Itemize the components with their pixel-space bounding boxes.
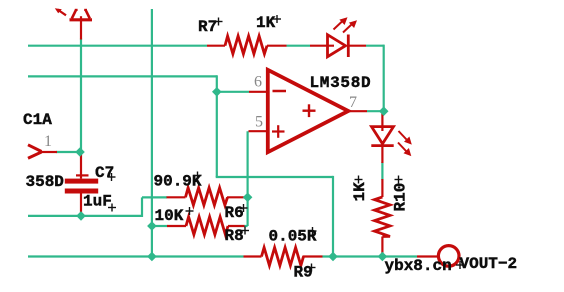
svg-text:1K: 1K — [351, 182, 369, 202]
svg-text:R8: R8 — [225, 227, 244, 245]
pin stub opamp pin7 — [349, 110, 368, 112]
wire pin5 down to R6 node — [244, 131, 248, 226]
svg-text:358D: 358D — [26, 173, 64, 191]
wire H3 cap bottom — [28, 197, 167, 217]
resistor R8 10K — [186, 217, 228, 235]
pin stub opamp pin6 — [249, 91, 267, 93]
pin stub R10 top — [381, 179, 383, 197]
resistor R7 — [225, 36, 267, 54]
cross 1K rot — [355, 179, 363, 181]
power symbol arrow — [70, 10, 93, 21]
svg-text:VOUT−2: VOUT−2 — [460, 255, 518, 273]
op-amp minus sign — [273, 90, 287, 93]
junction node (247.6,197) — [243, 192, 253, 202]
svg-text:R6: R6 — [225, 204, 244, 222]
pin stub R10 bottom — [381, 237, 383, 257]
cross 1uF — [108, 207, 116, 209]
cross R7 — [215, 21, 223, 23]
pin stub R8 left — [167, 225, 186, 227]
wire H2 to pin6 — [28, 75, 249, 92]
cross C7 — [108, 176, 116, 178]
pin stub R6 left — [167, 196, 186, 198]
wire LED2 to R10 — [381, 162, 383, 180]
pin stub LED2 top — [381, 111, 383, 131]
cross 90.9K — [194, 175, 202, 177]
wire H1 segments right of R7 — [287, 45, 385, 47]
LED D2 arrows — [398, 131, 407, 151]
wire H1 top — [28, 45, 207, 47]
pin stub LED1 cathode — [349, 45, 367, 47]
op-amp plus sign pin5 — [272, 125, 285, 138]
svg-text:ybx8.cn: ybx8.cn — [385, 257, 452, 275]
svg-text:R10: R10 — [392, 183, 410, 212]
wire pin1 opamp A to node — [56, 151, 80, 153]
pin stub opamp A pin1 — [41, 151, 57, 153]
cross R8 — [241, 230, 249, 232]
LED D1 arrows — [334, 22, 352, 33]
cross R10 rot — [395, 179, 403, 181]
svg-text:10K: 10K — [155, 207, 184, 225]
pin stub R7 left — [207, 45, 225, 47]
svg-text:1uF: 1uF — [83, 193, 112, 211]
svg-text:7: 7 — [349, 94, 357, 111]
pin stub R9 left — [244, 255, 262, 257]
wire from node down and right to x333 — [216, 92, 333, 257]
red pin stubs — [41, 20, 439, 257]
pin stub power — [80, 20, 82, 40]
svg-text:5: 5 — [255, 114, 263, 131]
junction node (152,226) — [147, 221, 157, 231]
cross R9 — [308, 267, 316, 269]
svg-text:0.05R: 0.05R — [269, 228, 317, 246]
pin stub cap bottom — [80, 194, 82, 216]
pin stub R8 right — [228, 225, 245, 227]
junction node (333,256.5) — [328, 252, 338, 262]
capacitor C7 plates — [65, 179, 98, 184]
op-amp U1B triangle — [268, 70, 349, 152]
wire vertical x152 — [151, 9, 153, 257]
junction node (383.7,111) — [379, 106, 389, 116]
junction node (382.4,256.5) — [378, 252, 388, 262]
svg-text:6: 6 — [254, 74, 262, 91]
pin stub opamp pin5 — [249, 130, 268, 132]
capacitor plus tick — [76, 174, 89, 176]
svg-text:1K: 1K — [256, 14, 276, 32]
wire pin7 to node — [367, 110, 384, 112]
wire H4 bottom — [28, 255, 417, 257]
VOUT-2 connector circle — [438, 246, 459, 267]
svg-text:C1A: C1A — [23, 111, 52, 129]
pin stub R6 right — [227, 196, 245, 198]
junction node (81,216) — [76, 211, 86, 221]
resistor R9 0.05R — [262, 248, 304, 266]
svg-text:R7: R7 — [198, 18, 217, 36]
svg-text:LM358D: LM358D — [310, 74, 372, 92]
wire 10K left — [152, 225, 168, 227]
resistor R10 vertical — [375, 197, 391, 237]
pin stub cap top — [80, 153, 82, 179]
LED D1 horizontal — [328, 35, 349, 58]
op-amp A apex — [28, 145, 42, 158]
junction node (152,256.5) — [147, 252, 157, 262]
svg-text:1: 1 — [44, 133, 52, 150]
cross VOUT port — [456, 264, 464, 266]
wire vertical right x384 to node — [383, 45, 385, 112]
pin stub VOUT — [417, 255, 439, 257]
junction node (217,92) — [212, 87, 222, 97]
pin stub R7 right — [267, 45, 287, 47]
cross 0.05R — [309, 230, 317, 232]
op-amp plus sign center — [303, 104, 316, 117]
anchor crosses — [108, 15, 465, 272]
pin stub LED1 anode — [310, 45, 334, 47]
LED D2 vertical — [371, 127, 393, 146]
wire vertical x81 power rail — [80, 39, 82, 153]
cross 1K — [273, 18, 281, 20]
junction node (80,152) — [75, 147, 85, 157]
svg-text:R9: R9 — [294, 264, 313, 282]
cross 10K — [186, 210, 194, 212]
pin stub R9 right — [303, 255, 323, 257]
pin stub LED2 bottom — [381, 146, 383, 163]
flag tick top-left — [55, 8, 66, 15]
cross R6 — [240, 207, 248, 209]
resistor R6 90.9K — [186, 188, 228, 205]
